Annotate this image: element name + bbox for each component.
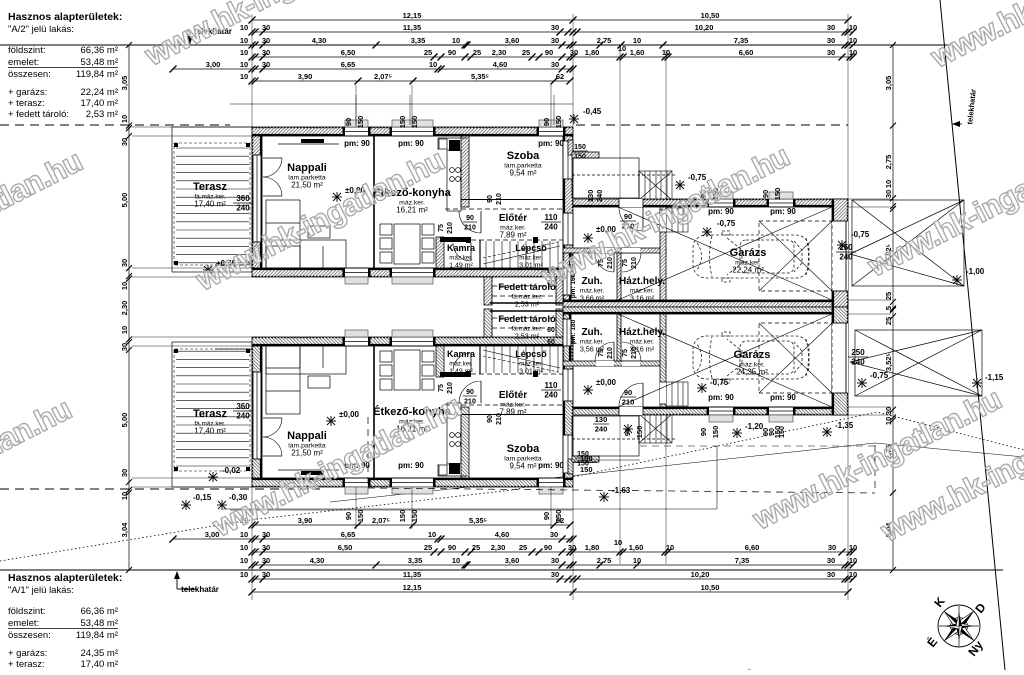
terasz double door (263, 455, 282, 457)
wall garage top (618, 407, 848, 415)
svg-text:Kamra: Kamra (447, 243, 476, 253)
svg-text:90: 90 (699, 428, 708, 436)
svg-text:30: 30 (827, 570, 835, 579)
level -1,00 upper apron (952, 275, 962, 285)
wall szoba bottom / eloter top (461, 414, 563, 416)
svg-text:+ garázs:: + garázs: (8, 87, 47, 98)
svg-text:30: 30 (120, 259, 129, 267)
svg-text:90: 90 (545, 48, 553, 57)
wall kamra top (440, 372, 466, 377)
svg-text:30: 30 (550, 530, 558, 539)
coffee table (308, 376, 330, 388)
svg-text:pm: 90: pm: 90 (770, 207, 796, 216)
svg-text:360: 360 (236, 194, 250, 203)
level -1,35 lower court (822, 427, 832, 437)
door zuh (613, 253, 615, 272)
terasz slab outline upper (172, 127, 252, 272)
window 90 nappali top (345, 478, 368, 487)
svg-text:10: 10 (884, 180, 893, 188)
dim row E top (170, 60, 577, 73)
svg-text:90: 90 (544, 543, 552, 552)
svg-text:6,60: 6,60 (745, 543, 760, 552)
svg-text:30: 30 (262, 570, 270, 579)
svg-text:30: 30 (827, 556, 835, 565)
garage door opening right (832, 221, 848, 291)
svg-text:22,24 m²: 22,24 m² (81, 87, 119, 98)
door hazt (622, 252, 641, 254)
window 90 garage top 2 (769, 407, 793, 415)
sofa (266, 346, 346, 414)
svg-text:30: 30 (551, 556, 559, 565)
svg-text:pm: 90: pm: 90 (344, 139, 370, 148)
svg-text:telekhatár: telekhatár (181, 585, 219, 594)
svg-text:2,07⁵: 2,07⁵ (374, 72, 393, 81)
svg-text:3,66 m²: 3,66 m² (580, 294, 605, 303)
garage cross lines (618, 314, 832, 407)
courtyard thin lines lower (223, 446, 875, 509)
wall zuh hazt top (563, 361, 666, 366)
svg-text:Házt.hely.: Házt.hely. (619, 327, 665, 338)
svg-text:10: 10 (662, 48, 670, 57)
svg-text:+ fedett tároló:: + fedett tároló: (8, 109, 69, 120)
level -1,15 lower apron (972, 378, 982, 388)
wall jog right of szoba (568, 459, 573, 474)
south dotted site boundary (0, 412, 1024, 561)
svg-text:60: 60 (547, 339, 555, 346)
car (693, 231, 809, 282)
svg-text:10: 10 (120, 282, 129, 290)
svg-text:119,84 m²: 119,84 m² (76, 630, 118, 641)
svg-text:10: 10 (633, 36, 641, 45)
svg-text:240: 240 (595, 190, 604, 203)
svg-text:119,84 m²: 119,84 m² (76, 69, 118, 80)
level -0,75 upper garage front (675, 180, 685, 190)
party wall (563, 300, 848, 307)
svg-text:75: 75 (438, 384, 445, 392)
svg-text:10,50: 10,50 (701, 11, 720, 20)
svg-text:30: 30 (262, 556, 270, 565)
door entrance (642, 383, 644, 407)
svg-text:pm: 90: pm: 90 (398, 139, 424, 148)
window 90 nappali top (345, 127, 368, 136)
wall main block right (563, 136, 573, 277)
level +-0,00 nappali lower (326, 416, 336, 426)
svg-text:150: 150 (398, 116, 407, 129)
svg-text:"A/1" jelü lakás:: "A/1" jelü lakás: (8, 585, 74, 596)
svg-text:+ garázs:: + garázs: (8, 648, 47, 659)
window 90 szoba top (539, 478, 563, 487)
window 150 etkezo top (392, 478, 433, 487)
door kamra (470, 353, 472, 371)
svg-text:Előtér: Előtér (499, 390, 527, 401)
dim row E bottom (170, 530, 577, 543)
roof overhang dashed line bottom left (0, 488, 320, 490)
svg-text:210: 210 (447, 222, 454, 234)
svg-text:30: 30 (262, 530, 270, 539)
wall main block bottom (252, 268, 573, 277)
fedett tarolo dashed (492, 309, 556, 337)
svg-text:150: 150 (779, 426, 786, 438)
svg-text:Hasznos alapterületek:: Hasznos alapterületek: (8, 572, 122, 584)
svg-text:10: 10 (428, 530, 436, 539)
svg-text:10: 10 (240, 556, 248, 565)
wall garage right (832, 307, 848, 415)
svg-text:10: 10 (240, 36, 248, 45)
svg-text:pm: 90: pm: 90 (770, 393, 796, 402)
svg-text:3,52⁵: 3,52⁵ (884, 352, 893, 371)
svg-text:emelet:: emelet: (8, 618, 39, 629)
svg-text:210: 210 (496, 193, 503, 205)
svg-text:2,30: 2,30 (120, 301, 129, 316)
svg-text:90: 90 (466, 389, 474, 396)
svg-text:10: 10 (452, 556, 460, 565)
svg-text:Garázs: Garázs (734, 349, 771, 361)
svg-text:máz.ker.: máz.ker. (449, 255, 473, 262)
svg-text:7,89 m²: 7,89 m² (499, 408, 526, 417)
svg-text:Terasz: Terasz (193, 181, 228, 193)
wall etkezo szoba (461, 136, 469, 207)
fedett tarolo walls (484, 277, 492, 305)
svg-text:"A/2" jelü lakás:: "A/2" jelü lakás: (8, 24, 74, 35)
svg-text:90: 90 (487, 415, 494, 423)
svg-text:90: 90 (542, 118, 551, 126)
svg-text:10: 10 (618, 44, 626, 53)
svg-text:3,35: 3,35 (408, 556, 423, 565)
svg-text:máz.ker.: máz.ker. (519, 255, 543, 262)
svg-text:±0,00: ±0,00 (596, 378, 617, 387)
entry wall segment (573, 407, 619, 415)
svg-text:30: 30 (551, 570, 559, 579)
dim row F top (240, 72, 574, 85)
svg-text:12,15: 12,15 (403, 11, 422, 20)
svg-text:2,53 m²: 2,53 m² (515, 300, 540, 309)
terasz double door (263, 157, 282, 159)
svg-text:150: 150 (574, 154, 586, 161)
right vertical dimension chain (884, 42, 896, 573)
svg-text:150: 150 (773, 188, 782, 201)
window 90 szoba top (539, 127, 563, 136)
telekhatar label bottom (174, 571, 219, 594)
svg-text:25: 25 (519, 543, 527, 552)
lower unit graphics group (mirrored) (132, 307, 891, 600)
door szoba (480, 211, 482, 233)
stair landing box (572, 158, 639, 198)
svg-text:25: 25 (884, 292, 893, 300)
svg-text:30: 30 (827, 48, 835, 57)
svg-text:-1,00: -1,00 (966, 267, 985, 276)
garage door opening right (832, 323, 848, 393)
wall main block bottom (252, 337, 573, 346)
roof overhang dashed line top left (0, 124, 230, 126)
entry steps (666, 382, 688, 406)
svg-text:16,21 m²: 16,21 m² (396, 206, 428, 215)
eaves line above top wall (230, 509, 573, 511)
svg-text:6,65: 6,65 (341, 530, 356, 539)
svg-text:21,50 m²: 21,50 m² (291, 449, 323, 458)
dim row C top (240, 36, 857, 49)
wall zuh left (563, 314, 571, 361)
svg-text:9,54 m²: 9,54 m² (509, 462, 536, 471)
svg-text:17,40 m²: 17,40 m² (81, 98, 119, 109)
svg-text:máz.ker.: máz.ker. (519, 361, 543, 368)
party wall (563, 307, 848, 314)
wall kamra lepcso divider (479, 346, 481, 374)
extension lines (132, 314, 891, 600)
svg-text:150: 150 (410, 116, 419, 129)
dim row B top (240, 23, 857, 36)
wall garage top (618, 199, 848, 207)
svg-text:10: 10 (120, 492, 129, 500)
terasz deck upper (174, 143, 252, 265)
wall hazt garage divider (660, 207, 666, 300)
svg-text:90: 90 (761, 190, 770, 198)
svg-text:Hasznos alapterületek:: Hasznos alapterületek: (8, 11, 122, 23)
sofa (266, 200, 346, 268)
svg-text:66,36 m²: 66,36 m² (81, 45, 119, 56)
svg-text:90: 90 (466, 215, 474, 222)
svg-text:4,60: 4,60 (493, 60, 508, 69)
compass rose (938, 605, 980, 647)
svg-text:5,00: 5,00 (120, 193, 129, 208)
svg-text:Lépcső: Lépcső (515, 243, 547, 253)
svg-text:17,40 m²: 17,40 m² (194, 200, 226, 209)
telekhatar east slanted boundary line (940, 0, 1005, 670)
svg-text:10: 10 (884, 417, 893, 425)
wall main block left (252, 136, 262, 268)
hob burners (450, 168, 461, 182)
svg-text:210: 210 (464, 225, 476, 232)
svg-text:pm: 90: pm: 90 (708, 393, 734, 402)
wall zuh left (563, 253, 571, 300)
svg-text:150: 150 (635, 426, 644, 439)
svg-text:24,35 m²: 24,35 m² (81, 648, 119, 659)
svg-text:4,30: 4,30 (310, 556, 325, 565)
svg-text:3,90: 3,90 (298, 516, 313, 525)
svg-text:30: 30 (570, 48, 578, 57)
svg-text:17,40 m²: 17,40 m² (194, 427, 226, 436)
svg-text:90: 90 (542, 512, 551, 520)
svg-text:3,05: 3,05 (120, 76, 129, 91)
svg-text:150: 150 (356, 116, 365, 129)
svg-text:240: 240 (544, 223, 558, 232)
svg-text:62: 62 (556, 72, 564, 81)
wall szoba bottom / eloter top (461, 199, 563, 201)
svg-text:30: 30 (828, 543, 836, 552)
extension lines (132, 14, 891, 300)
svg-text:30: 30 (551, 23, 559, 32)
svg-text:-0,75: -0,75 (710, 378, 729, 387)
window 150 etkezo top (392, 127, 433, 136)
svg-text:10: 10 (240, 60, 248, 69)
svg-text:2,30: 2,30 (491, 543, 506, 552)
level -0,75 lower apron (857, 378, 867, 388)
svg-text:90: 90 (769, 428, 776, 436)
left vertical dimension chain (120, 42, 132, 573)
window 150x150 szoba right (563, 435, 573, 473)
svg-text:75: 75 (622, 259, 629, 267)
svg-text:11,35: 11,35 (403, 570, 421, 579)
svg-text:90: 90 (448, 543, 456, 552)
level -0,75 upper apron (837, 240, 847, 250)
door zuh (613, 342, 615, 361)
svg-text:12,15: 12,15 (403, 583, 422, 592)
svg-text:130: 130 (586, 190, 595, 203)
svg-text:210: 210 (496, 413, 503, 425)
svg-text:+ terasz:: + terasz: (8, 659, 45, 670)
telekhatar south boundary line (0, 569, 1003, 571)
svg-text:Zuh.: Zuh. (581, 276, 602, 287)
terasz glass door opening (253, 372, 261, 459)
door hazt (622, 360, 641, 362)
svg-text:53,48 m²: 53,48 m² (81, 57, 119, 68)
terasz deck upper (174, 349, 252, 471)
stairs lepcso (483, 346, 560, 373)
svg-text:Nappali: Nappali (287, 162, 327, 174)
eaves line above top wall (230, 103, 573, 105)
svg-text:90: 90 (448, 48, 456, 57)
svg-text:10: 10 (849, 543, 857, 552)
svg-text:30: 30 (262, 60, 270, 69)
svg-text:150: 150 (574, 144, 586, 151)
dashed courtyard lines lower (368, 417, 875, 493)
kitchen counter (438, 138, 467, 211)
wall zuh hazt divider (617, 314, 621, 361)
svg-text:30: 30 (262, 23, 270, 32)
svg-text:9,54 m²: 9,54 m² (509, 169, 536, 178)
svg-text:+ terasz:: + terasz: (8, 98, 45, 109)
svg-text:110: 110 (545, 213, 558, 222)
svg-text:25: 25 (522, 48, 530, 57)
level +-0,00 lower entry (583, 385, 593, 395)
svg-text:6,50: 6,50 (341, 48, 356, 57)
svg-text:5,35⁵: 5,35⁵ (469, 516, 488, 525)
svg-text:6,65: 6,65 (341, 60, 356, 69)
svg-text:24,35 m²: 24,35 m² (736, 368, 768, 377)
svg-text:10,50: 10,50 (701, 583, 720, 592)
svg-text:10,20: 10,20 (691, 570, 710, 579)
svg-text:30: 30 (884, 407, 893, 415)
telekhatar label top (187, 27, 232, 44)
svg-text:10: 10 (240, 72, 248, 81)
upper unit graphics group (132, 14, 891, 307)
svg-text:1,60: 1,60 (630, 48, 645, 57)
svg-text:5: 5 (884, 306, 893, 310)
svg-text:210: 210 (622, 398, 635, 407)
svg-text:30: 30 (827, 23, 835, 32)
driveway apron lower (850, 330, 982, 396)
svg-text:150: 150 (398, 510, 407, 523)
car (693, 332, 809, 383)
wall zuh hazt divider (617, 253, 621, 300)
svg-text:100: 100 (580, 454, 593, 463)
svg-text:3,60: 3,60 (505, 556, 520, 565)
door entrance (642, 207, 644, 231)
wall jog right of szoba (568, 140, 573, 155)
svg-text:210: 210 (607, 347, 614, 359)
svg-text:3,05: 3,05 (884, 76, 893, 91)
svg-text:25: 25 (424, 543, 432, 552)
svg-text:240: 240 (544, 391, 558, 400)
wall kamra lepcso divider (479, 240, 481, 268)
level -0,15 lower (181, 500, 191, 510)
svg-text:21,50 m²: 21,50 m² (291, 181, 323, 190)
svg-text:30: 30 (262, 48, 270, 57)
garage door dashed leaf (759, 221, 832, 291)
svg-text:-1,20: -1,20 (745, 422, 764, 431)
partition nappali etkezo (373, 346, 375, 478)
hob burners (450, 433, 461, 447)
dim row D bottom (240, 543, 857, 556)
svg-text:3,60: 3,60 (505, 36, 520, 45)
roof overhang dashed line top right (576, 124, 848, 126)
window 90 nappali bottom courtyard (345, 268, 368, 277)
wall main block left (252, 346, 262, 478)
svg-text:pm: 90: pm: 90 (538, 461, 564, 470)
dining table (380, 224, 434, 264)
svg-text:240: 240 (236, 412, 250, 421)
level star lower court (623, 424, 633, 434)
svg-text:-1,15: -1,15 (985, 373, 1004, 382)
svg-text:30: 30 (120, 469, 129, 477)
svg-text:Házt.hely.: Házt.hely. (619, 276, 665, 287)
svg-text:25: 25 (424, 48, 432, 57)
svg-text:1,49 m²: 1,49 m² (449, 369, 473, 376)
wall main block top (252, 127, 573, 136)
svg-text:30: 30 (262, 36, 270, 45)
svg-text:150: 150 (554, 116, 563, 129)
svg-text:Garázs: Garázs (730, 247, 767, 259)
svg-text:30: 30 (568, 543, 576, 552)
svg-text:10: 10 (633, 556, 641, 565)
svg-text:3,35: 3,35 (411, 36, 426, 45)
svg-text:5,00: 5,00 (120, 413, 129, 428)
window 150 etkezo bottom courtyard (392, 268, 433, 277)
svg-text:90: 90 (344, 512, 353, 520)
svg-text:10: 10 (240, 48, 248, 57)
svg-text:pm: 90: pm: 90 (538, 139, 564, 148)
dim row A bottom (249, 583, 852, 596)
svg-text:30: 30 (884, 190, 893, 198)
svg-text:90: 90 (487, 195, 494, 203)
fedett tarolo walls (484, 309, 492, 337)
svg-text:2,75: 2,75 (597, 36, 612, 45)
svg-text:6,60: 6,60 (739, 48, 754, 57)
svg-text:30: 30 (120, 343, 129, 351)
svg-text:25: 25 (473, 48, 481, 57)
svg-text:360: 360 (236, 402, 250, 411)
svg-text:10: 10 (452, 36, 460, 45)
svg-text:földszint:: földszint: (8, 45, 46, 56)
svg-text:75: 75 (598, 349, 605, 357)
svg-text:25: 25 (472, 543, 480, 552)
svg-text:-0,45: -0,45 (583, 107, 602, 116)
wall hazt garage divider (660, 314, 666, 407)
fedett tarolo dashed (492, 277, 556, 305)
svg-text:30: 30 (827, 36, 835, 45)
svg-text:földszint:: földszint: (8, 606, 46, 617)
wall zuh hazt top (563, 248, 666, 253)
svg-text:2,07⁵: 2,07⁵ (372, 516, 391, 525)
wall garage right (832, 199, 848, 307)
level -0,02 terasz lower (208, 472, 218, 482)
partition nappali etkezo (373, 136, 375, 268)
fridge (449, 463, 460, 474)
svg-text:250: 250 (851, 348, 865, 357)
svg-text:1,60: 1,60 (629, 543, 644, 552)
level +-0,00 nappali upper (332, 192, 342, 202)
tv board (301, 471, 324, 475)
svg-text:150: 150 (410, 510, 419, 523)
